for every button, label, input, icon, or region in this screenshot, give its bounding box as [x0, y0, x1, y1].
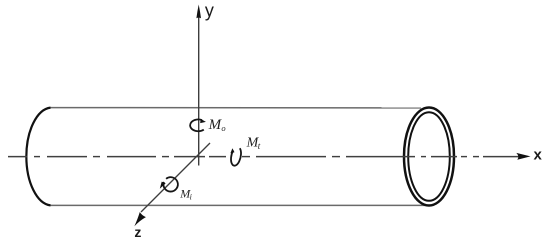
svg-text:y: y — [205, 1, 214, 21]
svg-text:M: M — [208, 117, 223, 133]
svg-text:i: i — [190, 192, 192, 201]
svg-text:o: o — [221, 123, 225, 133]
svg-text:z: z — [134, 224, 141, 240]
svg-text:t: t — [258, 141, 261, 151]
svg-text:x: x — [534, 147, 543, 164]
